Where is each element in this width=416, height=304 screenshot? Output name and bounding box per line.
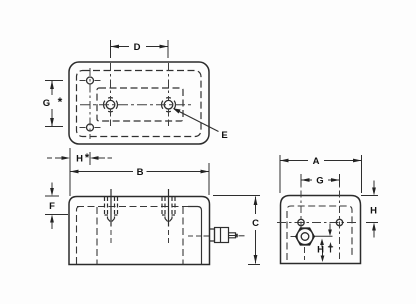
side right hole vertical centerline — [339, 175, 341, 259]
inner dim down-arrow stem — [329, 224, 331, 231]
inner ledge hidden outline — [77, 71, 202, 137]
hole 1 counterbore — [105, 197, 118, 223]
hex nut — [296, 228, 314, 244]
hex hole — [301, 233, 309, 241]
svg-text:*: * — [85, 152, 90, 164]
dim C arrowheads — [254, 197, 258, 206]
dim A line — [280, 160, 308, 162]
inner dim bottom down-arrow stem — [322, 251, 324, 258]
svg-text:*: * — [58, 95, 63, 109]
stud (front view) — [210, 228, 238, 243]
svg-text:D: D — [134, 42, 141, 53]
side right hole — [336, 219, 342, 225]
center hole left counterbore arcs — [104, 98, 118, 112]
stud body step — [220, 228, 222, 243]
inner wall left hidden — [77, 207, 81, 265]
leader line E — [174, 109, 219, 132]
hole 2 centerline — [168, 189, 170, 227]
center holes horizontal centerline — [80, 104, 193, 106]
boss hidden line right — [182, 207, 184, 265]
boss hidden line left — [96, 207, 98, 265]
dim G arrowheads — [50, 81, 54, 90]
svg-text:G: G — [43, 98, 50, 109]
leader E arrowhead — [173, 108, 181, 113]
side left hole — [298, 219, 304, 225]
dim D arrowheads — [111, 45, 120, 49]
small hole top-left — [87, 77, 94, 84]
svg-text:E: E — [221, 130, 227, 141]
small hole crosshair dashes — [80, 80, 86, 82]
dim B arrowheads — [70, 170, 79, 174]
center hole right counterbore arcs — [162, 98, 176, 112]
center hole left vertical centerline — [110, 63, 112, 100]
center hole left — [106, 100, 115, 109]
dim H right arrowheads — [372, 188, 376, 196]
stud hidden centerline inside — [188, 235, 202, 237]
dim H arrowheads — [62, 156, 71, 160]
svg-text:H: H — [76, 154, 83, 165]
svg-text:B: B — [137, 167, 144, 178]
dim C top ext — [213, 195, 260, 197]
dim B line — [70, 171, 133, 173]
dim H right stems — [373, 181, 375, 190]
dim H outside stems — [47, 157, 52, 159]
dim H ext line right — [89, 152, 91, 165]
inner bottom down arrowhead — [321, 256, 325, 263]
side view outline — [281, 196, 361, 264]
dim A arrowheads — [280, 159, 289, 163]
outer body outline (top view) — [69, 62, 209, 144]
hex right line / dim tick — [315, 235, 333, 237]
hex left centerline dash — [291, 236, 297, 238]
inner ledge hidden line — [77, 206, 188, 208]
center hole right vertical centerline — [168, 63, 170, 100]
dim F bottom tick — [45, 214, 59, 216]
small hole bottom-left — [87, 124, 94, 131]
svg-text:H: H — [370, 206, 377, 217]
stud neck — [210, 229, 215, 241]
stud tip slot — [236, 234, 238, 237]
dim G line — [51, 81, 53, 96]
svg-text:F: F — [49, 201, 55, 212]
dim H right top tick — [361, 195, 378, 197]
hole 2 counterbore — [162, 197, 175, 223]
dim C bottom ext — [248, 264, 260, 266]
inner wall right (solid) — [188, 207, 202, 265]
dim H right bottom tick — [366, 222, 378, 224]
svg-text:G: G — [316, 176, 323, 187]
dim F arrowheads — [50, 188, 54, 196]
dim F stems — [51, 183, 53, 190]
front view outline — [69, 197, 210, 265]
dim G ticks — [45, 80, 63, 82]
hole 1 centerline — [110, 189, 112, 227]
small up arrow (dagger) — [329, 242, 332, 248]
stud tip — [229, 233, 236, 238]
inner down arrowhead to hex line — [328, 230, 332, 237]
dim B ext line right — [208, 163, 210, 195]
dim G side arrowheads — [301, 178, 310, 182]
svg-text:C: C — [252, 218, 259, 229]
small holes vertical centerline — [89, 68, 91, 139]
side holes horizontal centerline — [277, 222, 356, 224]
svg-text:H: H — [317, 245, 324, 256]
dim D line — [111, 46, 130, 48]
below-hex vertical centerline — [304, 247, 306, 260]
side inner hidden outline — [287, 206, 352, 260]
inner up arrowhead under hex line — [320, 239, 324, 246]
side left hole vertical centerline — [300, 175, 302, 230]
stud body — [215, 228, 229, 243]
raised boss hidden outline — [97, 88, 183, 121]
dim C line — [255, 197, 257, 215]
dim F top tick — [45, 195, 59, 197]
stud centerline — [204, 235, 210, 237]
dim F ext to part — [59, 214, 68, 216]
dim H ext line left (shared with B) — [69, 148, 71, 196]
dim G side ticks — [300, 174, 302, 186]
dim G side line — [301, 179, 312, 181]
dim A ext lines — [279, 155, 281, 193]
dim D extension lines — [110, 40, 112, 58]
hole profiles front view — [105, 189, 176, 246]
svg-text:A: A — [313, 156, 320, 167]
center hole right — [164, 100, 173, 109]
hex washer circle — [297, 229, 313, 245]
